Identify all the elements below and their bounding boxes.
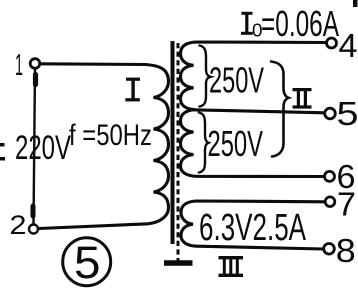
scan speck top right corner — [353, 0, 358, 7]
terminal 2 — [29, 225, 38, 234]
svg-text:2: 2 — [10, 210, 27, 240]
svg-text:250V: 250V — [209, 59, 264, 100]
svg-text:1: 1 — [15, 47, 23, 82]
terminal 8 — [324, 244, 335, 255]
wire: terminal 1 vertical to terminal 2 — [34, 69, 36, 225]
terminal 1 — [30, 59, 40, 69]
svg-text:=0.06A: =0.06A — [261, 3, 339, 44]
svg-text:8: 8 — [336, 232, 356, 269]
svg-text:5: 5 — [74, 237, 101, 288]
brace for lower 250V winding — [199, 113, 209, 173]
scan speck left edge lower — [0, 157, 5, 161]
svg-text:4: 4 — [339, 27, 358, 64]
junction blob below terminal 1 — [33, 75, 38, 85]
svg-text:6.3V2.5A: 6.3V2.5A — [199, 207, 306, 249]
terminal 4 — [327, 38, 337, 48]
scan speck left edge upper — [0, 143, 5, 147]
svg-text:220V: 220V — [15, 129, 71, 167]
circled schematic number 5 — [63, 238, 111, 286]
big brace grouping winding II — [271, 62, 289, 157]
svg-text:f =50Hz: f =50Hz — [69, 119, 152, 152]
core laminations solid line — [171, 41, 175, 244]
winding P1 primary with top and bottom wires — [39, 64, 169, 229]
terminal 7 — [325, 197, 335, 207]
terminal 6 — [325, 171, 335, 181]
svg-text:7: 7 — [337, 185, 356, 222]
junction blob above terminal 2 — [31, 206, 36, 216]
winding I roman numeral label — [125, 78, 140, 102]
label I0=0.06A — [241, 12, 253, 35]
brace for upper 250V winding — [200, 46, 211, 107]
winding II roman numeral label — [293, 88, 312, 109]
ground bar — [164, 260, 193, 265]
core shield dashed line — [177, 43, 180, 261]
winding S1 secondary II with wire to terminal 4 and wire to terminal 6 — [181, 42, 327, 177]
winding III roman numeral label — [219, 256, 244, 277]
terminal 5 — [325, 108, 336, 119]
svg-text:250V: 250V — [208, 123, 264, 164]
winding S2 secondary III with wire to terminal 7 and wire to terminal 8 — [181, 201, 325, 249]
svg-text:5: 5 — [337, 95, 358, 132]
wire: center tap to terminal 5 — [192, 110, 325, 113]
